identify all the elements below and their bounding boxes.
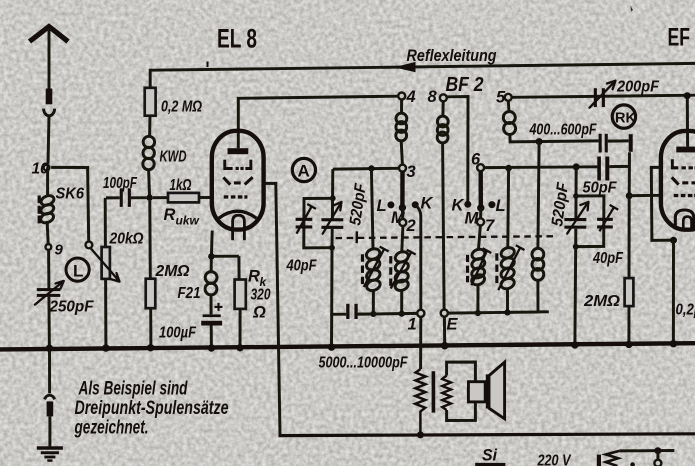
node xyxy=(102,344,109,351)
ground jack cup xyxy=(45,395,55,399)
wire 2MOhm column xyxy=(628,152,631,196)
wire group1 bottom xyxy=(358,312,418,316)
svg-text:K: K xyxy=(452,197,465,215)
wire grid3 to EF xyxy=(629,194,661,197)
wire 100pF left leg down xyxy=(104,198,107,247)
node xyxy=(236,344,243,351)
svg-text:SK6: SK6 xyxy=(56,186,85,203)
terminal 4 xyxy=(398,93,405,100)
L4 adjust arrow xyxy=(498,245,524,290)
svg-text:L: L xyxy=(73,262,83,281)
wire coil4 riser xyxy=(506,168,510,247)
svg-text:KWD: KWD xyxy=(160,149,187,166)
terminal 9 xyxy=(46,244,52,250)
SK6 core dashes xyxy=(38,196,41,224)
svg-text:0,2 MΩ: 0,2 MΩ xyxy=(161,99,202,116)
wire xyxy=(47,250,50,288)
svg-text:7: 7 xyxy=(485,217,495,235)
node padder junction xyxy=(536,138,543,145)
wire xyxy=(47,221,48,244)
svg-text:Reflexleitung: Reflexleitung xyxy=(407,47,497,65)
antenna jack cup xyxy=(44,109,55,116)
antenna plug pin xyxy=(46,89,53,105)
wire 3 to M (thick) xyxy=(400,172,405,208)
node trimmer top xyxy=(573,163,580,170)
capacitor 520pF variable (right) xyxy=(564,196,588,247)
L2 core dashes xyxy=(389,256,392,286)
wire tuning line top xyxy=(333,167,399,171)
coil below pin 8 xyxy=(441,101,444,116)
svg-text:R: R xyxy=(164,206,176,224)
node cathode xyxy=(208,253,215,260)
wire coil8 down to terminal E xyxy=(443,143,445,310)
svg-text:A: A xyxy=(298,162,310,181)
wire to bus xyxy=(149,308,152,348)
svg-text:100pF: 100pF xyxy=(103,175,137,192)
wire xyxy=(46,171,49,197)
terminal 3 xyxy=(399,165,406,172)
capacitor 100pF xyxy=(106,188,146,207)
wire EF grid1 return xyxy=(651,167,676,240)
wire xyxy=(538,280,549,312)
svg-text:6: 6 xyxy=(471,151,481,169)
capacitor 40pF trimmer (right) xyxy=(597,205,618,231)
lower mains bus xyxy=(279,434,695,436)
terminal 6 xyxy=(477,164,484,171)
circled L xyxy=(66,258,89,281)
wire 40pF branch (left) xyxy=(304,198,333,248)
node M (right group) xyxy=(477,204,484,211)
wire xyxy=(628,196,631,278)
svg-text:100µF: 100µF xyxy=(159,325,196,342)
svg-text:1kΩ: 1kΩ xyxy=(170,177,192,194)
mains transformer winding xyxy=(606,451,620,466)
node xyxy=(670,340,677,347)
pot wiper arrow xyxy=(91,248,120,281)
node xyxy=(684,92,691,99)
resistor 2MOhm xyxy=(146,279,156,309)
L4 core dashes xyxy=(495,253,498,283)
coil L3 xyxy=(470,248,486,287)
svg-text:RK: RK xyxy=(615,111,636,127)
svg-text:Ω: Ω xyxy=(252,304,266,322)
svg-text:R: R xyxy=(248,268,260,286)
wire trimmer to bus xyxy=(573,247,577,345)
contact K (right group) xyxy=(464,201,471,208)
svg-text:8: 8 xyxy=(428,88,438,106)
svg-text:gezeichnet.: gezeichnet. xyxy=(74,417,149,439)
L3 adjust arrow xyxy=(471,248,491,285)
dashed screen line xyxy=(336,236,557,238)
svg-text:0,2µ: 0,2µ xyxy=(676,302,695,319)
svg-text:2: 2 xyxy=(406,217,416,235)
capacitor 200pF variable xyxy=(590,81,616,108)
tick on dashed line xyxy=(356,231,359,243)
paper speck xyxy=(631,6,634,12)
svg-text:2MΩ: 2MΩ xyxy=(155,263,190,280)
wire xyxy=(148,116,151,137)
wire Rk top xyxy=(237,256,240,279)
wire down to coupling cap xyxy=(332,248,347,315)
svg-text:L: L xyxy=(377,197,387,215)
EL8 grid 3 xyxy=(224,195,248,198)
potentiometer 20kOhm xyxy=(102,247,110,279)
secondary winding loop xyxy=(447,362,476,421)
coil KWD xyxy=(143,136,155,169)
terminal 1 xyxy=(417,310,424,317)
wire KWD node down xyxy=(148,201,151,279)
coil L1 (variable, left group) xyxy=(365,247,382,292)
secondary zigzag xyxy=(442,376,451,411)
terminal 7 xyxy=(479,208,482,219)
terminal 10 xyxy=(44,165,50,171)
wire xyxy=(211,255,239,258)
speaker box xyxy=(468,382,485,402)
node xyxy=(475,310,481,316)
wire mains switch xyxy=(619,449,674,452)
node xyxy=(504,309,510,315)
wire group2 bottom xyxy=(448,312,538,313)
resistor 1kOhm xyxy=(153,193,213,203)
L3 core dashes xyxy=(466,255,469,282)
resistor 2MOhm (right) xyxy=(625,278,634,306)
wire xyxy=(575,167,578,196)
terminal E xyxy=(441,310,448,317)
tube EL8 envelope xyxy=(212,131,264,230)
wire antenna to terminal 10 xyxy=(48,116,49,164)
svg-text:L: L xyxy=(496,197,506,215)
wire 0,2MOhm top xyxy=(149,69,152,88)
circled A xyxy=(292,158,315,181)
wire EL8 anode riser and plate line to BF2 pin 4 xyxy=(238,96,398,148)
resistor 0,2MOhm xyxy=(145,88,156,116)
node xyxy=(329,245,335,251)
mains plug pin xyxy=(597,455,601,466)
wire below bus xyxy=(48,348,51,393)
svg-text:EF: EF xyxy=(668,24,691,52)
wire to bus xyxy=(672,240,675,343)
coil below pin 5 xyxy=(507,101,511,112)
wire coil1 riser xyxy=(371,168,373,248)
svg-text:F21: F21 xyxy=(178,285,201,302)
wire to bus xyxy=(330,314,333,347)
capacitor 40pF trimmer (left) xyxy=(296,204,316,234)
antenna xyxy=(30,27,69,89)
terminal 5 xyxy=(505,94,512,101)
svg-text:K: K xyxy=(421,195,434,213)
svg-text:E: E xyxy=(447,316,459,334)
coil below pin 4 xyxy=(400,100,403,114)
wire grid line from pin 6 xyxy=(484,165,597,169)
capacitor 250pF (variable) xyxy=(35,281,64,305)
wire xyxy=(149,170,150,198)
wire coil5 riser xyxy=(538,142,539,248)
contact L xyxy=(387,201,394,208)
node coil4 top xyxy=(505,165,512,172)
EL8 grid 1 xyxy=(223,160,252,170)
note text xyxy=(74,378,229,439)
svg-text:1: 1 xyxy=(408,316,417,334)
wire to ground xyxy=(48,416,51,446)
L2 adjust arrow xyxy=(391,250,416,289)
node xyxy=(328,343,335,350)
node xyxy=(370,311,376,317)
wire xyxy=(210,259,213,272)
resistor-style primary winding xyxy=(415,369,425,435)
EL8 cathode xyxy=(219,211,257,218)
svg-text:Si: Si xyxy=(482,447,497,465)
transformer core xyxy=(432,371,436,412)
resistor Rk 320 Ohm xyxy=(235,280,246,309)
coil L5 xyxy=(532,248,544,280)
node xyxy=(208,344,215,351)
ground plug pin xyxy=(47,401,54,416)
node xyxy=(654,447,661,454)
svg-text:400...600pF: 400...600pF xyxy=(529,122,597,139)
wire cathode to node xyxy=(210,231,214,257)
wire: screen dropper from EL8 to lower bus xyxy=(264,183,280,435)
wire to bus xyxy=(47,297,50,348)
coil L4 xyxy=(500,246,516,291)
L1 adjust arrow xyxy=(364,247,389,287)
wire coil2 riser xyxy=(402,226,403,252)
svg-text:9: 9 xyxy=(55,242,64,259)
speaker cone xyxy=(486,362,505,419)
main ground bus xyxy=(0,343,695,349)
wire coil3 riser xyxy=(479,226,481,250)
wire to bus xyxy=(627,306,630,344)
fuse Si body top xyxy=(475,463,505,466)
wire: top feedback line with left arrow xyxy=(150,62,695,73)
node coil1 top xyxy=(368,165,374,171)
circled RK xyxy=(612,105,636,128)
node M (left group) xyxy=(399,204,406,211)
node xyxy=(573,244,579,250)
svg-text:50pF: 50pF xyxy=(583,180,617,197)
node xyxy=(571,341,578,348)
node xyxy=(573,193,579,199)
svg-text:200pF: 200pF xyxy=(616,79,659,96)
tube EF envelope xyxy=(661,131,695,230)
wire xyxy=(210,295,213,315)
node xyxy=(441,342,449,350)
terminal 2 xyxy=(401,208,404,219)
switch contact xyxy=(656,451,659,460)
svg-text:20kΩ: 20kΩ xyxy=(109,231,144,248)
svg-text:ukw: ukw xyxy=(176,214,200,228)
wire xyxy=(476,285,479,313)
EF grid 1 xyxy=(671,159,695,169)
wire xyxy=(506,289,509,312)
svg-text:250pF: 250pF xyxy=(49,299,94,316)
EF anode xyxy=(676,147,695,153)
node xyxy=(670,237,677,244)
wire plate line pin5 to EF anode xyxy=(512,95,695,97)
wire pin8 bracket to contact K xyxy=(447,97,468,202)
wire terminal1 down to output transformer xyxy=(419,317,422,369)
EL8 heater xyxy=(233,215,245,240)
wire to bus xyxy=(239,309,242,348)
wire xyxy=(372,291,375,314)
svg-text:BF 2: BF 2 xyxy=(446,74,484,96)
node xyxy=(399,311,405,317)
node xyxy=(626,192,633,199)
node on lower bus xyxy=(417,431,424,438)
capacitor 400...600pF xyxy=(599,134,633,153)
wire terminal10 to wiper xyxy=(51,167,89,241)
node xyxy=(147,344,154,351)
EL8 anode xyxy=(228,148,249,154)
svg-text:5000...10000pF: 5000...10000pF xyxy=(319,355,408,372)
svg-text:320: 320 xyxy=(251,287,271,304)
capacitor 520pF variable (left) xyxy=(321,202,343,234)
node: bus-antenna junction xyxy=(46,345,53,352)
wire 40pF branch (right) xyxy=(576,196,604,247)
svg-text:40pF: 40pF xyxy=(286,258,317,275)
svg-text:5: 5 xyxy=(496,89,506,107)
wire to bus xyxy=(210,326,213,349)
EF cathode xyxy=(675,210,694,230)
L1 core dashes xyxy=(361,254,364,284)
terminal 8 xyxy=(440,94,447,101)
ground xyxy=(37,448,63,461)
small contact dot xyxy=(630,462,635,466)
contact L (right group) xyxy=(488,201,495,208)
contact K with wire to terminal 1 xyxy=(412,201,419,208)
svg-text:4: 4 xyxy=(406,88,416,106)
EF anode riser xyxy=(686,96,689,147)
svg-text:EL 8: EL 8 xyxy=(217,24,257,54)
wire E to bus xyxy=(443,317,446,346)
coil SK6 xyxy=(39,194,55,225)
coil L2 xyxy=(394,250,410,292)
svg-text:2MΩ: 2MΩ xyxy=(583,293,621,310)
pot wiper terminal xyxy=(86,242,93,249)
EF grid 2 xyxy=(672,177,695,184)
wire xyxy=(400,291,403,314)
svg-text:40pF: 40pF xyxy=(592,250,623,267)
EL8 grid 2 xyxy=(223,177,252,185)
wire 6 to M (thick) xyxy=(479,171,483,208)
capacitor 100uF electrolytic xyxy=(201,303,222,326)
capacitor 5000...10000pF xyxy=(346,304,370,319)
capacitor series coupling (to 2MOhm line) xyxy=(597,157,629,181)
node: grid junction xyxy=(146,194,153,201)
node xyxy=(330,195,336,201)
node xyxy=(625,341,632,348)
svg-text:3: 3 xyxy=(407,163,416,181)
wire tuning vertical xyxy=(331,169,334,218)
wire pot to bus xyxy=(104,279,107,348)
coil F21 xyxy=(205,272,217,295)
EF grid 3 xyxy=(674,194,695,197)
svg-text:220 V: 220 V xyxy=(537,453,572,466)
